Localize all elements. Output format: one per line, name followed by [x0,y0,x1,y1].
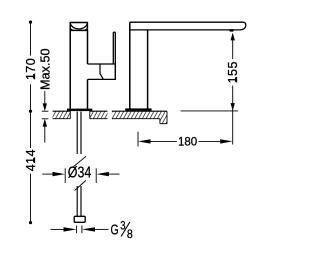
handle block top edge [88,63,116,65]
mixer body left side [69,31,71,109]
dim G3/8 right leader [94,228,109,230]
svg-text:414: 414 [24,149,38,171]
dim 155 line upper segment [232,39,234,59]
dim Ø34 left tick [64,168,66,183]
dim 180 left arrowhead [138,139,151,143]
mixer body right side lower [87,79,89,108]
dim 180 right extension line [232,111,234,145]
dim Max.50 top tick [42,110,49,112]
svg-text:8: 8 [127,227,133,241]
mixer cap right corner wedge [84,28,88,31]
dim Ø34 left leader [42,173,53,175]
svg-text:Max.50: Max.50 [38,48,52,90]
counter piece left of hole (hatch) [53,111,71,119]
serif foot of digit 1 in 180 [179,144,183,146]
svg-text:180: 180 [178,137,197,149]
dim endpoint dot bottom [29,221,32,224]
dim Max.50 down arrowhead [43,103,47,111]
svg-text:170: 170 [24,58,38,80]
dim 180 line right segment [199,140,222,142]
serif foot of digit 1 in 155 [235,77,237,81]
svg-text:Ø34: Ø34 [68,164,92,181]
counter piece under spout bottom edge [112,118,160,120]
dim endpoint dot top [29,21,32,24]
dim G3/8 right arrowhead [82,227,95,231]
thread label fraction slash [121,222,130,237]
counter top extension line [181,110,239,112]
counter piece right of hole top edge [90,110,108,112]
mixer cap inner arc [70,24,87,29]
dim Ø34 right tick [95,168,97,183]
dim Max.50 up arrowhead [43,119,47,127]
serif foot of digit 1 in 414 [33,158,35,162]
dim Ø34 left arrowhead [53,172,66,176]
dim 155 up arrowhead [231,33,235,41]
lever handle bar [113,32,115,64]
supply pipe lower right wall [80,186,82,216]
counter piece right of hole (hatch) [90,111,108,119]
dim 180 left extension tick [137,132,139,147]
dim Ø34 right leader [108,173,120,175]
dim 180 right arrowhead [220,139,233,143]
dim Max.50 upper leader [44,91,46,104]
dim endpoint dot middle [29,110,32,113]
spout aerator tip [229,29,235,31]
counter piece left of hole top edge [53,110,71,112]
handle block right edge [114,64,116,79]
dim G3/8 left tick [76,226,78,234]
dim 414 line upper segment [30,111,32,148]
counter piece left of hole bottom edge [53,118,71,120]
supply pipe upper right wall [80,112,82,155]
dim 155 line lower segment [232,86,234,111]
mixer cap outline [70,23,87,31]
dim 170 line upper segment [30,22,32,56]
spout arm outline with rounded tip and aerator bump [130,22,246,30]
dim 155 down arrowhead [231,103,235,111]
dim 414 line lower segment [30,174,32,223]
counter piece under spout with apron (hatch) [112,111,167,124]
pipe end nut [74,216,85,222]
dim G3/8 left arrowhead [64,227,77,231]
counter hole right edge [89,111,91,119]
dim G3/8 left leader [51,228,65,230]
svg-text:G: G [111,222,119,238]
handle pivot seam [100,64,103,79]
spout base plate [125,108,151,110]
mixer base plate [67,109,92,112]
supply pipe lower left wall [76,186,78,216]
dim Max.50 lower leader [44,126,46,143]
dim Max.50 bottom tick [42,118,49,120]
dim G3/8 right tick [81,226,83,234]
spout body left side [129,22,131,108]
supply pipe upper left wall [76,112,78,155]
counter piece under spout top edge [112,110,167,112]
handle block bottom edge [88,78,116,80]
counter apron right edge [166,111,168,124]
mixer body right side upper [87,31,89,64]
pipe break slash lower [75,180,87,190]
counter piece right of hole bottom edge [90,118,108,120]
svg-text:155: 155 [226,61,240,83]
dim 170 line lower segment [30,84,32,111]
dim Ø34 right arrowhead [96,172,109,176]
dim 180 line left segment [149,140,177,142]
pipe break slash upper [74,156,87,166]
counter hole left edge [69,111,71,119]
serif foot of digit 1 in 170 [33,74,35,78]
spout body right side [147,30,149,109]
counter apron bottom edge [160,123,167,125]
counter apron inner edge [159,119,161,124]
mixer cap left corner wedge [70,28,74,31]
